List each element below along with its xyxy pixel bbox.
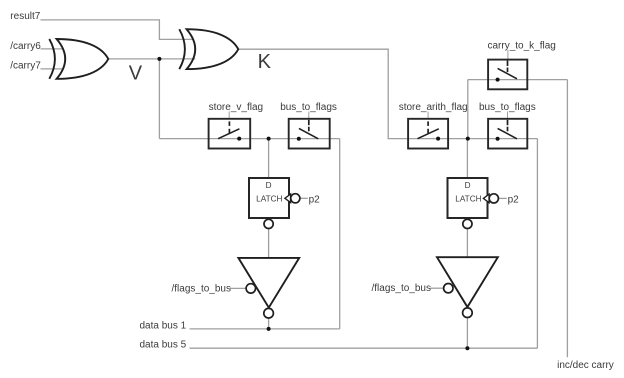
- D latch U1 (left): [249, 178, 300, 228]
- wire right latch output bubble to inverter: [466, 229, 468, 258]
- svg-text:/flags_to_bus: /flags_to_bus: [172, 283, 232, 294]
- svg-text:result7: result7: [10, 11, 40, 22]
- wire /carry6 input: [41, 48, 64, 50]
- wire result7 to XOR2 top input: [41, 20, 194, 40]
- control stub store_arith_flag: [427, 112, 429, 120]
- junction node data bus 5: [465, 346, 469, 350]
- wire left latch p2 clock: [300, 197, 308, 199]
- svg-text:data bus 5: data bus 5: [140, 340, 187, 351]
- junction node left switch row: [267, 137, 271, 141]
- svg-text:inc/dec carry: inc/dec carry: [557, 360, 614, 371]
- svg-text:LATCH: LATCH: [455, 194, 481, 203]
- svg-text:p2: p2: [508, 194, 520, 205]
- svg-text:LATCH: LATCH: [256, 194, 282, 203]
- XOR gate 1 (V = /carry6 ^ /carry7): [49, 39, 108, 79]
- control stub carry_to_k_flag: [507, 50, 509, 60]
- switch box bus_to_flags (right): [488, 119, 527, 149]
- switch box store_arith_flag: [408, 119, 448, 149]
- tri-state inverter left: [238, 258, 299, 318]
- wire V net: XOR1 output to XOR2 bottom input: [108, 58, 195, 60]
- switch box store_v_flag: [209, 119, 251, 149]
- wire /carry7 input: [41, 68, 64, 70]
- wire inc/dec carry net: [566, 80, 568, 358]
- svg-text:carry_to_k_flag: carry_to_k_flag: [488, 41, 556, 52]
- wire V junction down to store_v_flag row: [158, 59, 160, 139]
- switch box carry_to_k_flag: [488, 60, 527, 90]
- svg-text:/carry6: /carry6: [10, 41, 41, 52]
- wire carry_to_k_flag row: [468, 79, 568, 81]
- wire data bus 1: [190, 328, 340, 330]
- svg-text:data bus 1: data bus 1: [140, 321, 187, 332]
- svg-text:D: D: [266, 181, 272, 190]
- svg-text:D: D: [465, 181, 471, 190]
- svg-text:store_arith_flag: store_arith_flag: [399, 102, 468, 113]
- wire right latch p2 clock: [498, 197, 507, 199]
- wire data bus 5: [190, 347, 538, 349]
- wire bus_to_flags right, down to data bus 1: [339, 139, 341, 329]
- wire /flags_to_bus to left inverter enable bubble: [230, 287, 246, 289]
- control stub bus_to_flags left: [308, 112, 310, 120]
- wire left latch output bubble to inverter: [268, 229, 270, 258]
- wire K net: XOR2 output right, down, to store_arith_flag: [239, 49, 538, 138]
- XOR gate 2 (K = result7 ^ V): [179, 29, 238, 69]
- wire right inverter output to data bus 5: [466, 317, 468, 348]
- wire left switch row through store_v_flag and bus_to_flags: [159, 138, 339, 140]
- junction node V: [157, 57, 161, 61]
- wire right bus_to_flags down to data bus 5 end: [536, 139, 538, 349]
- svg-text:V: V: [129, 63, 143, 85]
- wire left inverter output to data bus 1: [268, 318, 270, 329]
- control stub store_v_flag: [228, 112, 230, 120]
- svg-text:p2: p2: [309, 194, 321, 205]
- svg-text:/flags_to_bus: /flags_to_bus: [372, 283, 432, 294]
- wire junction to right latch D input: [466, 139, 468, 178]
- svg-text:/carry7: /carry7: [10, 60, 41, 71]
- D latch U2 (right): [448, 178, 499, 228]
- wire carry_to_k_flag left side down to junction: [467, 80, 469, 139]
- svg-text:K: K: [258, 51, 272, 73]
- svg-text:bus_to_flags: bus_to_flags: [280, 102, 337, 113]
- wire /flags_to_bus to right inverter enable bubble: [430, 287, 444, 289]
- junction node data bus 1: [267, 327, 271, 331]
- switch box bus_to_flags (left): [289, 119, 330, 149]
- tri-state inverter right: [437, 257, 498, 317]
- control stub bus_to_flags right: [507, 112, 509, 120]
- junction node right switch row: [466, 137, 470, 141]
- wire junction to left latch D input: [268, 139, 270, 178]
- svg-text:bus_to_flags: bus_to_flags: [479, 102, 536, 113]
- svg-text:store_v_flag: store_v_flag: [209, 102, 263, 113]
